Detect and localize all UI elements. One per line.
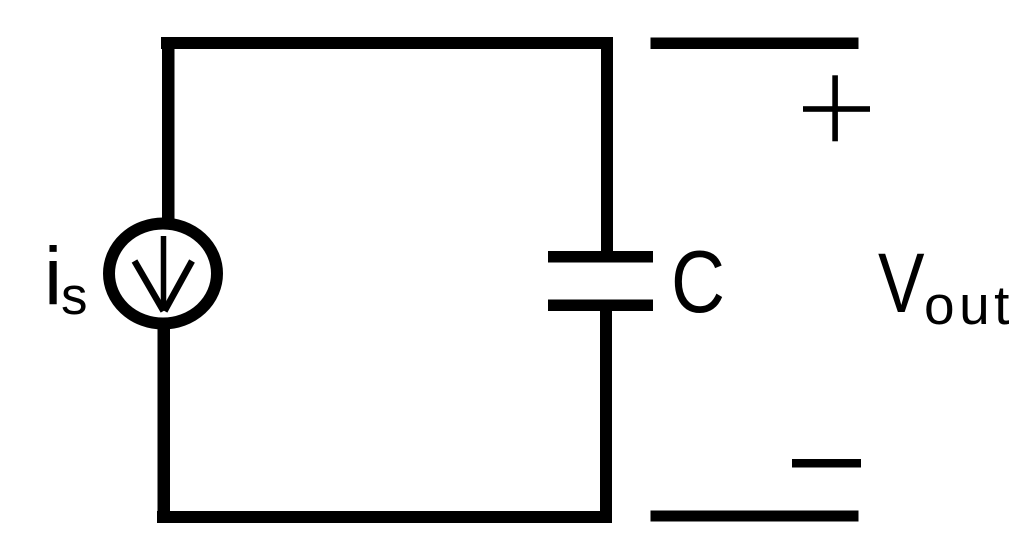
current source arrowhead right arm [165,261,193,311]
plus sign horizontal stroke [803,106,870,112]
wire top horizontal [161,37,612,49]
capacitor C top plate [548,251,653,263]
plus sign vertical stroke [832,75,838,141]
minus sign [792,459,861,468]
svg-text:s: s [61,267,88,326]
current source arrow shaft [161,236,167,310]
wire left vertical lower segment [158,326,171,523]
wire right vertical upper segment [601,37,613,254]
svg-text:V: V [878,236,925,330]
svg-text:out: out [924,274,1014,336]
current source arrowhead left arm [135,261,164,311]
svg-text:i: i [44,231,62,322]
current source i_s circle [109,224,217,324]
wire bottom horizontal [157,511,612,523]
output terminal bar top [651,38,859,50]
output terminal bar bottom [651,511,859,522]
wire right vertical lower segment [600,308,612,523]
capacitor C bottom plate [548,300,653,312]
svg-text:C: C [671,232,725,331]
wire left vertical upper segment [162,37,175,221]
